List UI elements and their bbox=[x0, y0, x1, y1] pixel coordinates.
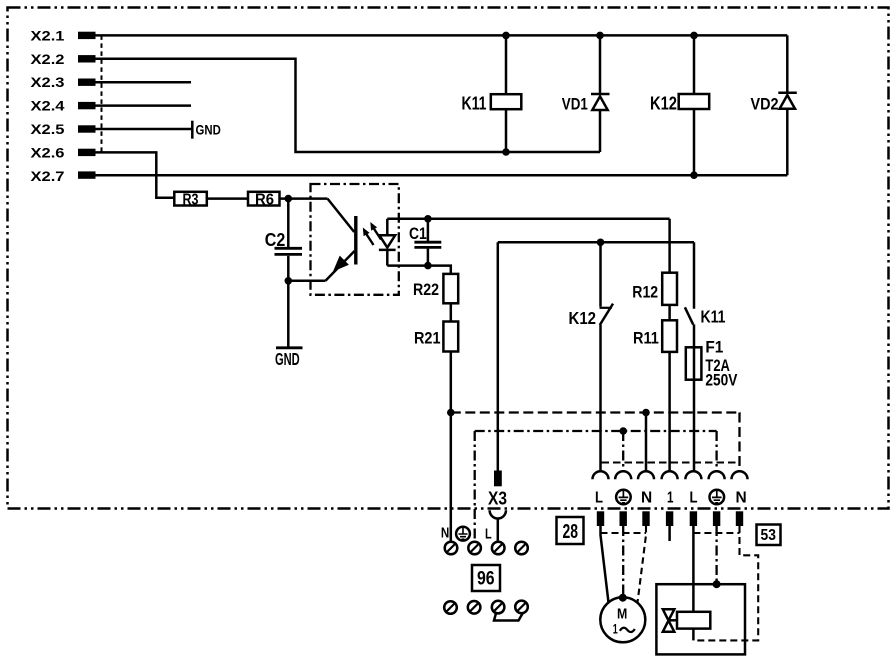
node junction N rail terminal N bbox=[642, 409, 650, 417]
svg-text:K11: K11 bbox=[462, 93, 487, 113]
svg-text:K12: K12 bbox=[650, 93, 677, 113]
connector X2 pin X2.1 bbox=[31, 27, 96, 43]
node junction K11 top bbox=[502, 32, 510, 40]
plug pin L (1) bbox=[597, 511, 604, 526]
node junction VD1 top bbox=[596, 32, 604, 40]
wire X2.7 bottom rail bbox=[96, 174, 788, 177]
node junction C1 bottom bbox=[424, 262, 432, 270]
earth symbol terminal 6 bbox=[710, 490, 725, 505]
terminal socket L (5) bbox=[685, 471, 701, 479]
wire X3 column bbox=[497, 242, 500, 470]
terminal socket 1 (4) bbox=[662, 471, 678, 479]
fuse F1 bbox=[686, 324, 738, 389]
svg-text:L: L bbox=[485, 526, 492, 543]
resistor R22 bbox=[413, 274, 458, 303]
connector X2 pin X2.7 bbox=[31, 168, 96, 184]
screw terminal row1 N bbox=[445, 542, 458, 555]
svg-text:C1: C1 bbox=[409, 224, 427, 243]
wire earth rail down to earth terminal 6 bbox=[715, 431, 717, 471]
screw terminal row2 1 bbox=[444, 601, 457, 614]
wire X3/K12/K11 common rail bbox=[498, 241, 694, 244]
svg-text:N: N bbox=[441, 525, 449, 542]
resistor R11 bbox=[633, 320, 677, 352]
wire N rail corner down to terminal N right bbox=[738, 413, 740, 471]
wire motor earth lead dash-dot bbox=[622, 526, 624, 597]
earth symbol terminal 2 bbox=[616, 490, 631, 505]
screw terminal row1 L bbox=[492, 542, 505, 555]
diode VD1 bbox=[562, 94, 610, 114]
terminal socket L (1) bbox=[593, 471, 609, 479]
svg-text:R3: R3 bbox=[183, 191, 199, 208]
wire R22 to R21 bbox=[450, 303, 453, 321]
svg-text:L: L bbox=[690, 489, 698, 506]
relay coil K11 bbox=[462, 93, 522, 113]
diode LED of optocoupler bbox=[379, 219, 396, 266]
plug pin L (5) bbox=[690, 511, 697, 526]
wire X3 to L screw bbox=[497, 518, 500, 542]
label box 53 bbox=[757, 525, 781, 546]
svg-text:X2.4: X2.4 bbox=[31, 98, 65, 114]
plug pin N (3) bbox=[642, 511, 649, 526]
wire coil bottom stub bbox=[692, 629, 695, 641]
wire R11 down to terminal 1 bbox=[668, 352, 671, 471]
resistor R21 bbox=[414, 322, 458, 352]
border frame (decorative) bbox=[8, 8, 889, 509]
wire dashed boundary above terminals bbox=[602, 462, 741, 464]
node junction K12 top bbox=[690, 32, 698, 40]
svg-text:L: L bbox=[595, 489, 603, 506]
wire K12 switch to terminal L bbox=[599, 325, 602, 471]
wire F1 to terminal L bbox=[693, 380, 696, 471]
svg-text:R6: R6 bbox=[255, 191, 274, 208]
svg-text:M: M bbox=[617, 606, 627, 622]
wire R12 to R11 bbox=[668, 305, 671, 320]
wire R21 down to N screw bbox=[450, 352, 453, 542]
svg-text:X2.2: X2.2 bbox=[31, 51, 65, 67]
resistor R3 bbox=[174, 191, 207, 208]
wire dashed motor connector bbox=[601, 532, 647, 534]
svg-text:K11: K11 bbox=[701, 306, 726, 326]
motor M 1~ bbox=[600, 597, 645, 642]
wire C2 to opto emitter bbox=[288, 280, 325, 283]
screw terminal row1 spare bbox=[515, 542, 528, 555]
ground GND below C2 bbox=[275, 281, 303, 369]
wire motor L lead bbox=[601, 526, 609, 603]
svg-text:R12: R12 bbox=[632, 283, 658, 302]
resistor R6 bbox=[248, 191, 280, 208]
svg-text:X2.6: X2.6 bbox=[31, 144, 65, 160]
connector X2 pin X2.4 bbox=[31, 98, 96, 114]
wire stub below pin 4 bbox=[668, 526, 671, 541]
connector X2 pin X2.2 bbox=[31, 51, 96, 67]
plug pin earth (2) bbox=[620, 511, 627, 526]
terminal socket N (3) bbox=[638, 471, 654, 479]
plug pin earth (6) bbox=[713, 511, 720, 526]
diode VD2 bbox=[751, 93, 797, 114]
wire X2.1 top rail bbox=[96, 34, 788, 37]
node junction K12 bottom bbox=[690, 171, 698, 179]
svg-text:96: 96 bbox=[477, 568, 495, 590]
svg-text:X2.5: X2.5 bbox=[31, 121, 65, 137]
valve symbol bowtie bbox=[663, 609, 677, 631]
wire N rail dashed bbox=[451, 411, 741, 413]
valve box bbox=[656, 584, 745, 654]
node junction motor top bbox=[619, 594, 627, 602]
wire X2.5 to GND bbox=[96, 128, 193, 131]
svg-text:R11: R11 bbox=[633, 329, 659, 348]
wire valve earth lead dash-dot bbox=[715, 526, 717, 584]
svg-text:X2.7: X2.7 bbox=[31, 168, 65, 184]
node junction C1 top bbox=[424, 215, 432, 223]
connector X3 pin bbox=[488, 471, 507, 509]
svg-text:1: 1 bbox=[613, 621, 618, 637]
wire valve N lead dashed bbox=[693, 526, 758, 640]
screw terminal row1 earth bbox=[468, 542, 481, 555]
wire R3 to R6 bbox=[207, 197, 248, 200]
svg-text:X2.3: X2.3 bbox=[31, 74, 65, 90]
wire K12 coil vertical bbox=[693, 35, 696, 175]
wire X2.4 stub bbox=[96, 104, 192, 107]
wire LED top to R12 column bbox=[387, 218, 669, 221]
svg-text:K12: K12 bbox=[569, 308, 597, 328]
svg-text:N: N bbox=[736, 489, 747, 506]
connector X3 socket arc bbox=[490, 510, 506, 518]
wire earth rail dash-dot bbox=[475, 430, 717, 432]
connector X2 pin X2.6 bbox=[31, 144, 96, 160]
wire R12 top column bbox=[668, 219, 671, 273]
wire X2.6 to R3 bbox=[96, 152, 175, 197]
resistor R12 bbox=[632, 273, 677, 305]
wire earth rail down to earth screw bbox=[474, 431, 476, 542]
svg-text:28: 28 bbox=[563, 521, 579, 543]
connector X2 pin X2.5 bbox=[31, 121, 96, 137]
svg-text:N: N bbox=[641, 489, 652, 506]
node junction C2 bottom bbox=[285, 277, 293, 285]
wire down to terminal N left bbox=[645, 413, 648, 471]
svg-text:R22: R22 bbox=[413, 280, 439, 299]
capacitor C1 bbox=[409, 219, 441, 266]
label box 28 bbox=[557, 517, 584, 544]
screw terminal row2 4 bbox=[515, 601, 528, 614]
terminal socket earth (6) bbox=[709, 471, 725, 479]
switch contact K12 bbox=[569, 304, 614, 328]
svg-text:X2.1: X2.1 bbox=[31, 27, 65, 43]
svg-text:R21: R21 bbox=[414, 329, 441, 348]
wire X2.2 to K11/VD1 bottom bbox=[96, 59, 601, 152]
node junction K11 bottom bbox=[502, 148, 510, 156]
node junction R21/N rail bbox=[447, 409, 455, 417]
svg-text:VD1: VD1 bbox=[562, 95, 588, 114]
svg-text:GND: GND bbox=[196, 122, 221, 137]
capacitor C2 bbox=[265, 199, 302, 281]
earth symbol screw row bbox=[456, 527, 470, 541]
connector X2 boundary dashed line bbox=[101, 35, 103, 152]
wire valve L lead bbox=[692, 526, 695, 612]
svg-text:F1: F1 bbox=[705, 339, 723, 357]
plug pin 1 (4) bbox=[666, 511, 673, 526]
switch contact K11 bbox=[685, 306, 726, 326]
wire K11 coil vertical bbox=[505, 35, 508, 152]
wire VD1 vertical bbox=[599, 35, 602, 152]
wire K12 switch branch bbox=[599, 242, 602, 306]
plug pin N (7) bbox=[736, 511, 743, 526]
op-amp optocoupler U1 dash-dot box bbox=[311, 184, 399, 295]
svg-text:X3: X3 bbox=[488, 489, 507, 509]
node junction valve box top bbox=[713, 580, 721, 588]
ground GND tick X2.5 bbox=[192, 121, 221, 139]
LED light arrows bbox=[363, 222, 381, 245]
connector X2 pin X2.3 bbox=[31, 74, 96, 90]
wire earth rail down to earth terminal 2 bbox=[622, 431, 624, 471]
relay coil K12 bbox=[650, 93, 709, 113]
svg-text:53: 53 bbox=[761, 527, 776, 544]
wire VD2 vertical bbox=[786, 35, 789, 175]
wire jumper row2 screws 3-4 bbox=[494, 613, 523, 621]
node junction R6/C2 bbox=[285, 195, 293, 203]
wire motor N lead dashed bbox=[638, 526, 647, 603]
wire X2.3 stub bbox=[96, 81, 192, 84]
label box 96 bbox=[472, 565, 500, 591]
terminal socket N (7) bbox=[732, 471, 748, 479]
screw terminal row2 3 bbox=[492, 601, 505, 614]
transistor Q1 phototransistor bbox=[326, 199, 356, 281]
wire K11 switch branch bbox=[693, 242, 696, 308]
node junction K12 switch top bbox=[597, 239, 605, 247]
wire R6 to optocoupler bbox=[280, 197, 328, 200]
terminal socket earth (2) bbox=[615, 471, 631, 479]
wire LED bottom to R22 bbox=[387, 266, 451, 274]
svg-text:250V: 250V bbox=[705, 372, 737, 390]
node junction earth rail bbox=[619, 427, 627, 435]
svg-text:VD2: VD2 bbox=[751, 95, 779, 114]
svg-text:GND: GND bbox=[275, 349, 300, 369]
svg-text:C2: C2 bbox=[265, 229, 286, 250]
wire dashed valve connector bbox=[693, 532, 739, 534]
screw terminal row2 2 bbox=[468, 601, 481, 614]
svg-text:1: 1 bbox=[667, 489, 674, 506]
relay coil valve solenoid bbox=[677, 612, 710, 629]
